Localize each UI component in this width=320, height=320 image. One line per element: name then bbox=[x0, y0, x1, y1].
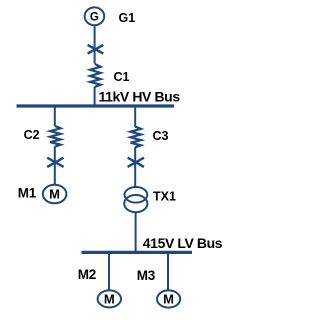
svg-text:C1: C1 bbox=[114, 70, 130, 84]
wire HV bus to cable C3 bbox=[134, 106, 136, 127]
wire C1 to HV bus bbox=[94, 87, 96, 107]
svg-text:M3: M3 bbox=[137, 268, 156, 283]
motor M3 bbox=[157, 290, 180, 307]
svg-text:C2: C2 bbox=[24, 128, 40, 142]
breaker X (G1 feeder) bbox=[88, 45, 104, 54]
transformer TX1 bbox=[124, 187, 147, 203]
svg-text:TX1: TX1 bbox=[153, 189, 176, 203]
svg-text:M: M bbox=[49, 187, 60, 202]
cable C2 (zigzag) bbox=[50, 126, 60, 147]
wire G1 to breaker bbox=[94, 26, 96, 64]
wire C3 to breaker bbox=[134, 147, 136, 187]
wire TX1 to LV bus bbox=[135, 213, 137, 253]
wire LV bus to motor M3 bbox=[167, 252, 169, 290]
breaker X (TX1 feeder) bbox=[128, 158, 144, 167]
svg-text:11kV HV Bus: 11kV HV Bus bbox=[99, 89, 181, 105]
wire C2 to breaker bbox=[54, 147, 56, 185]
11kV HV bus bbox=[17, 104, 175, 107]
wire HV bus to cable C2 bbox=[54, 106, 56, 126]
svg-text:C3: C3 bbox=[153, 129, 169, 143]
svg-text:M2: M2 bbox=[78, 267, 96, 282]
svg-text:M: M bbox=[163, 292, 174, 307]
motor M2 bbox=[98, 290, 121, 307]
svg-text:G1: G1 bbox=[119, 11, 136, 25]
wire LV bus to motor M2 bbox=[108, 252, 110, 290]
cable C3 (zigzag) bbox=[131, 127, 141, 148]
svg-text:G: G bbox=[90, 11, 99, 23]
motor M1 bbox=[43, 185, 67, 204]
cable C1 (zigzag) bbox=[90, 64, 100, 87]
415V LV bus bbox=[82, 251, 193, 254]
breaker X (M1 feeder) bbox=[47, 158, 63, 167]
generator G1 bbox=[85, 7, 105, 25]
svg-text:415V LV Bus: 415V LV Bus bbox=[143, 235, 223, 251]
svg-text:M1: M1 bbox=[18, 186, 37, 201]
svg-text:M: M bbox=[104, 292, 115, 307]
